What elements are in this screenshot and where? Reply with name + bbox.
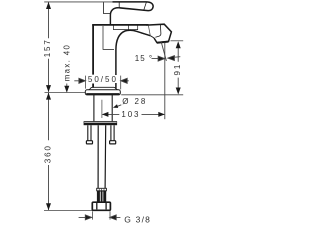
wire: nut right extension tick — [109, 211, 111, 219]
faucet handle cap detail line — [144, 2, 147, 10]
svg-text:50/50: 50/50 — [88, 75, 118, 84]
dimension 157 top arrow — [46, 2, 51, 9]
leader 15 degrees right arrow — [168, 56, 180, 61]
15 degree slant line — [161, 42, 166, 61]
faucet cartridge thin lines — [103, 26, 114, 49]
spout head block — [147, 24, 172, 42]
dimension 91 bottom arrow — [176, 88, 181, 95]
leader for Ø 28 — [116, 105, 121, 107]
base plate — [85, 90, 120, 95]
spout crease thin line — [155, 25, 161, 37]
svg-text:103: 103 — [121, 110, 140, 119]
dimension 157 vertical line — [48, 2, 50, 92]
svg-text:max. 40: max. 40 — [63, 44, 72, 82]
hose nut — [92, 202, 110, 210]
left stud — [88, 125, 91, 141]
hose knurled section — [97, 191, 106, 202]
wire: nut left extension tick — [92, 211, 94, 219]
dimension 103 right arrow — [158, 112, 165, 117]
wire: outlet vertical extension line — [164, 43, 166, 120]
wire: bottom extension line at hose end — [44, 210, 94, 212]
wire: 50/50 right extension line — [120, 76, 122, 90]
base plate bottom edge — [86, 93, 119, 95]
svg-text:Ø 28: Ø 28 — [122, 97, 147, 106]
bottom dimension left arrow — [79, 215, 92, 220]
dimension 103 line — [103, 113, 165, 115]
faucet handle neck — [110, 8, 119, 25]
shank left edge — [93, 95, 95, 121]
svg-text:360: 360 — [43, 144, 52, 163]
spout head lower left thin edge — [150, 36, 154, 38]
spout neck underside thin line — [142, 33, 150, 35]
dimension 91 top arrow — [176, 41, 181, 48]
faucet handle rear thin edges — [104, 2, 111, 13]
svg-text:15 °: 15 ° — [135, 54, 153, 63]
faucet body rim thin line — [114, 25, 138, 30]
wire: top extension line at handle top — [44, 1, 113, 3]
faucet handle pivot detail line — [118, 2, 120, 8]
supply pipe — [98, 125, 106, 188]
faucet body top edge — [92, 24, 148, 26]
spout head left thin edge — [148, 26, 150, 36]
right stud foot — [110, 141, 116, 144]
leader 15 degrees left arrow — [152, 56, 165, 61]
dimension 360 vertical line — [48, 93, 50, 210]
svg-text:91: 91 — [173, 63, 182, 76]
dimension 360 bottom arrow — [46, 203, 51, 210]
left stud foot — [86, 141, 92, 144]
spout outlet face — [157, 42, 168, 43]
bottom dimension right arrow — [110, 215, 121, 220]
wire: base plane extension line — [45, 91, 86, 93]
dimension 50/50 left arrow — [74, 78, 85, 83]
wire: 91 top extension line — [171, 40, 184, 42]
wire: 50/50 left extension line — [84, 76, 86, 89]
faucet body right edge and spout underside curve — [116, 30, 150, 88]
dimension 157 bottom arrow — [46, 85, 51, 92]
dimension max.40 line — [66, 84, 68, 89]
hose nut facet lines — [97, 203, 106, 209]
mounting flange — [84, 121, 118, 125]
center line — [101, 100, 103, 118]
dimension 50/50 right arrow — [121, 78, 129, 83]
hose collar — [97, 188, 107, 191]
dimension 91 line — [177, 47, 179, 91]
right stud — [111, 125, 114, 141]
dimension max.40 arrow — [64, 86, 69, 93]
faucet body left edge — [92, 25, 94, 88]
shank right edge — [111, 95, 113, 121]
svg-text:G 3/8: G 3/8 — [124, 214, 151, 224]
label 50/50 — [87, 75, 119, 83]
dimension 360 top arrow — [46, 93, 51, 100]
faucet handle lever top edge and right cap — [113, 2, 154, 11]
svg-text:157: 157 — [43, 38, 52, 57]
base trim piece — [89, 87, 118, 89]
dimension 103 left arrow — [102, 112, 109, 117]
wire: 91 bottom extension line — [121, 94, 183, 96]
